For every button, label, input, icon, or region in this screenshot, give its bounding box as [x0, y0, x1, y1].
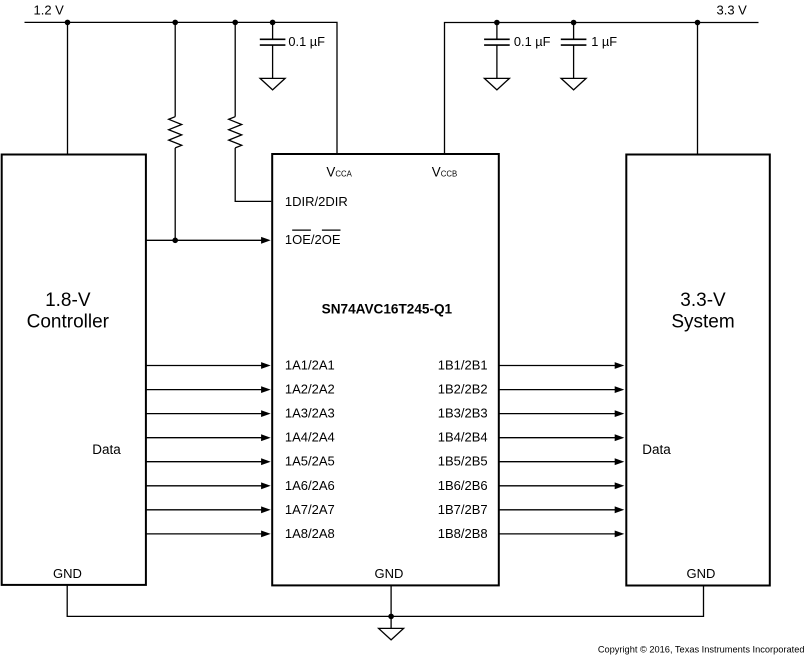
wire U1 GND to ground rail	[390, 585, 392, 628]
svg-text:1DIR/2DIR: 1DIR/2DIR	[285, 194, 348, 209]
capacitor C2 plates	[484, 39, 510, 45]
wire 1A2	[146, 389, 262, 391]
wire R2 bottom to 1DIR/2DIR pin	[235, 148, 271, 202]
svg-text:1A1/2A1: 1A1/2A1	[285, 358, 335, 373]
overbar 1OE	[292, 229, 311, 231]
wire 1A4	[146, 437, 262, 439]
arrowhead OE	[261, 237, 271, 244]
wire 1B7	[499, 509, 616, 511]
block U3 3.3-V System	[626, 155, 770, 586]
wire 1B4	[499, 437, 616, 439]
arrowhead 1B2	[615, 386, 625, 393]
wire 1A7	[146, 509, 262, 511]
junction on 3.3V rail at C2	[494, 20, 500, 26]
svg-text:1B1/2B1: 1B1/2B1	[438, 358, 488, 373]
svg-text:1.8-V: 1.8-V	[45, 290, 91, 311]
ground symbol bottom	[379, 628, 404, 640]
wire 1B5	[499, 461, 616, 463]
wire rail to R2 top	[234, 22, 236, 116]
wire 1.2V rail to VCCA	[25, 22, 338, 154]
svg-text:3.3-V: 3.3-V	[680, 290, 726, 311]
wire 1B8	[499, 533, 616, 535]
arrowhead 1A1	[261, 362, 271, 369]
wire 1.2V rail to controller VCC	[67, 22, 69, 154]
junction on 1.2V rail at R2	[232, 20, 238, 26]
capacitor C2 lead to ground	[496, 45, 498, 78]
svg-text:1A7/2A7: 1A7/2A7	[285, 502, 335, 517]
junction on 1.2V rail at R1	[172, 20, 178, 26]
arrowhead 1A8	[261, 531, 271, 538]
capacitor C1 plates	[260, 39, 286, 45]
arrowhead 1A3	[261, 410, 271, 417]
arrowhead 1A2	[261, 386, 271, 393]
svg-text:1OE/2OE: 1OE/2OE	[285, 232, 341, 247]
svg-text:1.2 V: 1.2 V	[34, 2, 65, 17]
svg-text:1A5/2A5: 1A5/2A5	[285, 454, 335, 469]
arrowhead 1A7	[261, 506, 271, 513]
capacitor C3 lead to ground	[573, 45, 575, 78]
capacitor C1 lead to ground	[272, 45, 274, 78]
arrowhead 1B7	[615, 506, 625, 513]
svg-text:GND: GND	[53, 566, 82, 581]
arrowhead 1B6	[615, 482, 625, 489]
wire 3.3V rail from VCCB	[445, 23, 759, 155]
svg-text:Controller: Controller	[27, 312, 110, 333]
block U1 SN74AVC16T245-Q1	[272, 154, 499, 585]
svg-text:1A3/2A3: 1A3/2A3	[285, 406, 335, 421]
resistor R1	[169, 117, 182, 148]
ground under C3	[561, 78, 586, 90]
junction ground rail	[388, 614, 394, 620]
svg-text:1A2/2A2: 1A2/2A2	[285, 382, 335, 397]
wire 1B3	[499, 413, 616, 415]
block U2 1.8-V Controller	[2, 155, 146, 585]
svg-text:1 µF: 1 µF	[591, 34, 617, 49]
junction on 3.3V rail at C3	[571, 20, 577, 26]
junction OE at R1	[172, 238, 178, 244]
svg-text:1B4/2B4: 1B4/2B4	[438, 430, 488, 445]
wire 1A1	[146, 365, 262, 367]
arrowhead 1B5	[615, 458, 625, 465]
junction on 1.2V rail at C1	[270, 20, 276, 26]
svg-text:0.1 µF: 0.1 µF	[288, 34, 325, 49]
arrowhead 1B8	[615, 531, 625, 538]
svg-text:1B8/2B8: 1B8/2B8	[438, 526, 488, 541]
capacitor C3 1uF lead from rail	[573, 23, 575, 40]
wire 1A3	[146, 413, 262, 415]
svg-text:1A6/2A6: 1A6/2A6	[285, 478, 335, 493]
svg-text:0.1 µF: 0.1 µF	[514, 34, 551, 49]
wire controller GND to ground rail	[67, 585, 703, 617]
arrowhead 1B3	[615, 410, 625, 417]
capacitor C1 0.1uF lead from rail	[272, 22, 274, 39]
arrowhead 1B4	[615, 434, 625, 441]
svg-text:1A4/2A4: 1A4/2A4	[285, 430, 335, 445]
svg-text:1B3/2B3: 1B3/2B3	[438, 406, 488, 421]
svg-text:Data: Data	[92, 442, 121, 457]
wire 1B2	[499, 389, 616, 391]
wire 1A6	[146, 485, 262, 487]
svg-text:SN74AVC16T245-Q1: SN74AVC16T245-Q1	[322, 302, 453, 317]
arrowhead 1B1	[615, 362, 625, 369]
svg-text:1B7/2B7: 1B7/2B7	[438, 502, 488, 517]
svg-text:1A8/2A8: 1A8/2A8	[285, 526, 335, 541]
svg-text:System: System	[671, 312, 734, 333]
resistor R2	[229, 117, 242, 148]
wire 1B6	[499, 485, 616, 487]
svg-text:GND: GND	[374, 566, 403, 581]
ground under C1	[260, 78, 285, 90]
wire OE from controller	[146, 239, 262, 241]
svg-text:1B5/2B5: 1B5/2B5	[438, 454, 488, 469]
junction on 3.3V rail at system drop	[695, 20, 701, 26]
ground under C2	[484, 78, 509, 90]
wire 1A5	[146, 461, 262, 463]
arrowhead 1A6	[261, 482, 271, 489]
junction on 1.2V rail at controller drop	[65, 20, 71, 26]
wire 1B1	[499, 365, 616, 367]
wire 3.3V rail to system VCC	[697, 23, 699, 155]
wire R1 bottom to OE line	[174, 148, 176, 240]
wire rail to R1 top	[174, 22, 176, 116]
svg-text:Data: Data	[642, 442, 671, 457]
svg-text:GND: GND	[686, 566, 715, 581]
overbar 2OE	[322, 229, 341, 231]
arrowhead 1A5	[261, 458, 271, 465]
wire 1A8	[146, 533, 262, 535]
capacitor C2 0.1uF lead from rail	[496, 23, 498, 40]
svg-text:3.3 V: 3.3 V	[717, 2, 748, 17]
svg-text:1B6/2B6: 1B6/2B6	[438, 478, 488, 493]
svg-text:1B2/2B2: 1B2/2B2	[438, 382, 488, 397]
capacitor C3 plates	[561, 39, 587, 45]
arrowhead 1A4	[261, 434, 271, 441]
svg-text:Copyright © 2016, Texas Instru: Copyright © 2016, Texas Instruments Inco…	[598, 645, 805, 655]
